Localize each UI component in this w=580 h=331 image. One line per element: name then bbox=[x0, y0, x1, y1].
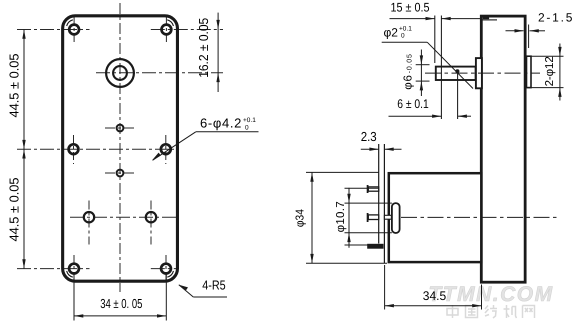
svg-text:0: 0 bbox=[401, 33, 405, 40]
svg-text:2-φ12: 2-φ12 bbox=[544, 56, 556, 86]
svg-text:15 ± 0.5: 15 ± 0.5 bbox=[391, 0, 430, 14]
svg-text:34 ± 0. 05: 34 ± 0. 05 bbox=[100, 296, 142, 311]
svg-text:+0.1: +0.1 bbox=[399, 26, 412, 33]
svg-text:φ34: φ34 bbox=[295, 209, 307, 228]
svg-text:6 ± 0.1: 6 ± 0.1 bbox=[397, 97, 429, 111]
svg-text:6-φ4.2: 6-φ4.2 bbox=[200, 116, 241, 131]
svg-text:44.5 ± 0.05: 44.5 ± 0.05 bbox=[7, 54, 22, 118]
svg-text:2.3: 2.3 bbox=[361, 129, 377, 144]
svg-text:0: 0 bbox=[245, 124, 249, 131]
svg-text:+0.1: +0.1 bbox=[243, 117, 256, 124]
svg-text:φ10.7: φ10.7 bbox=[335, 201, 347, 232]
svg-text:16.2 ± 0.05: 16.2 ± 0.05 bbox=[196, 18, 211, 78]
svg-text:34.5: 34.5 bbox=[423, 289, 446, 303]
svg-text:TTMN.COM: TTMN.COM bbox=[428, 283, 553, 306]
svg-text:44.5 ± 0.05: 44.5 ± 0.05 bbox=[7, 178, 22, 242]
svg-text:4-R5: 4-R5 bbox=[202, 277, 226, 292]
svg-text:φ2: φ2 bbox=[384, 26, 399, 40]
svg-text:2-1.5: 2-1.5 bbox=[538, 11, 573, 25]
